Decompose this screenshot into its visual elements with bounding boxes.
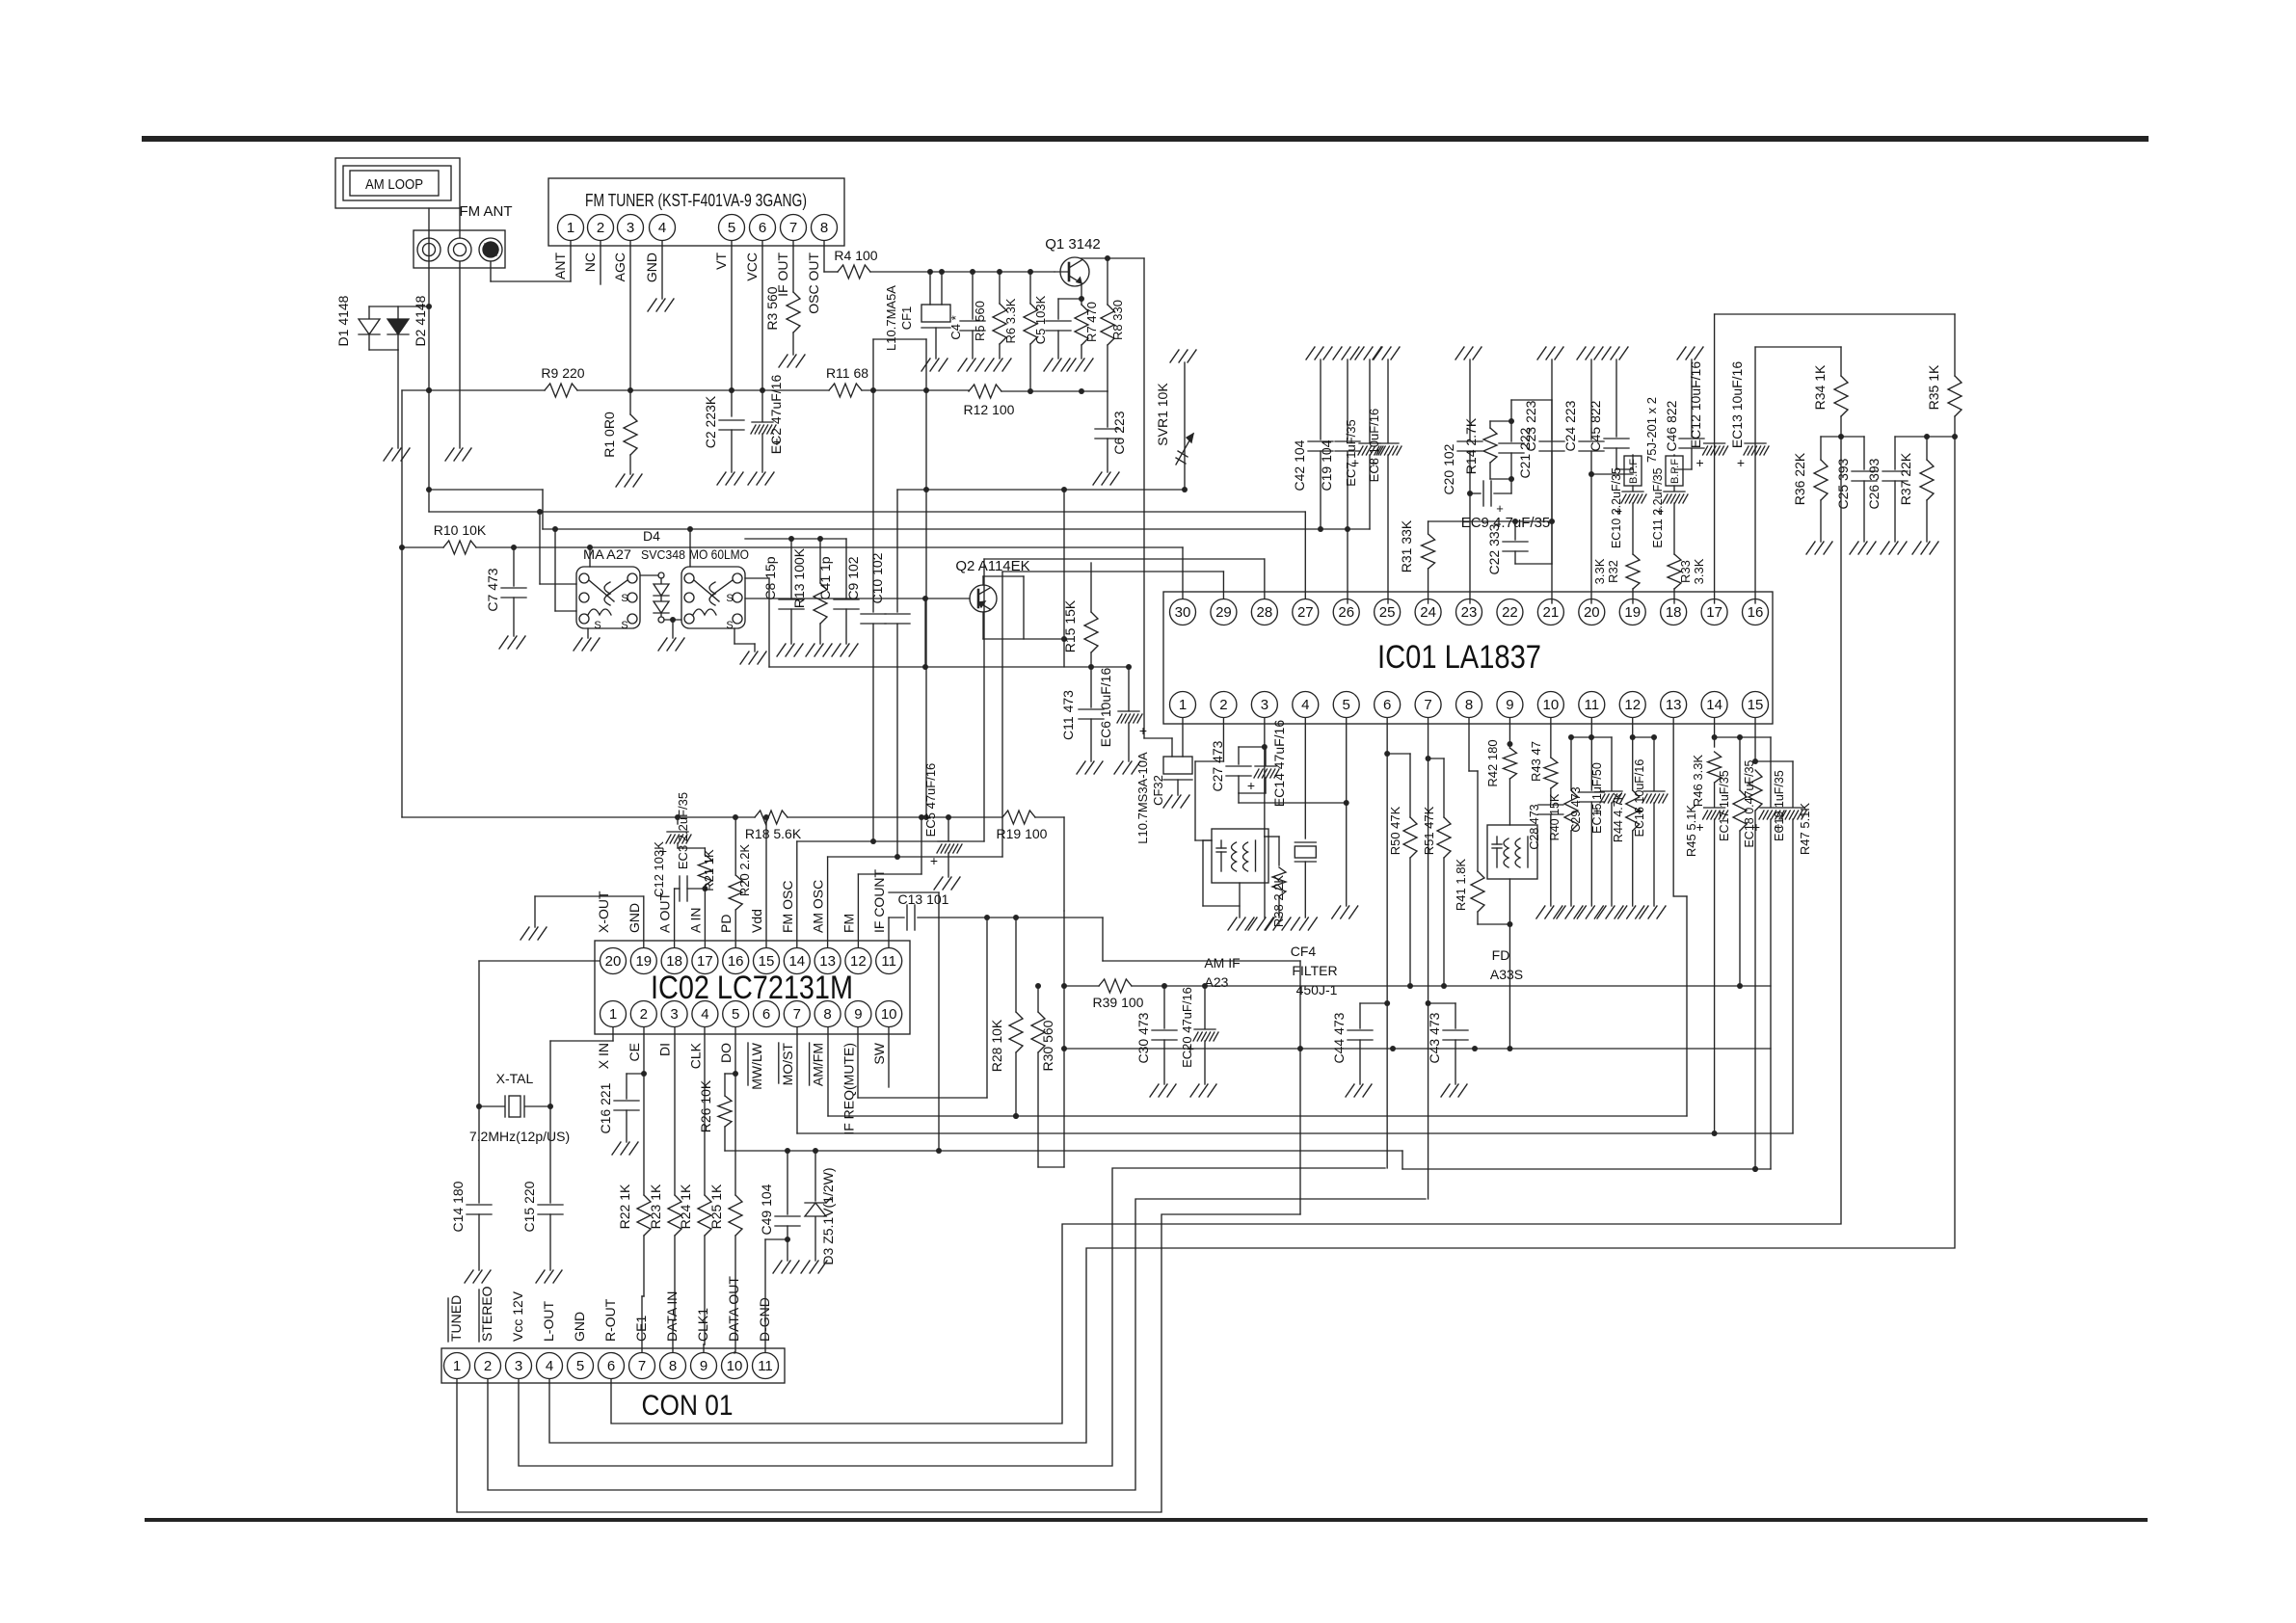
svg-text:C27 473: C27 473	[1210, 740, 1225, 791]
wire rail R26	[725, 1148, 1771, 1172]
wire	[1203, 840, 1240, 918]
pin 1 IC01	[1170, 692, 1196, 718]
svg-text:R41 1.8K: R41 1.8K	[1454, 859, 1468, 912]
svg-text:EC20 47uF/16: EC20 47uF/16	[1180, 987, 1194, 1068]
svg-text:4: 4	[658, 220, 666, 236]
capacitor C26 393	[1866, 437, 1908, 542]
capacitor C5 103K	[1033, 295, 1071, 359]
svg-text:2: 2	[640, 1006, 648, 1023]
pin 17 IC01	[1701, 599, 1727, 625]
svg-text:19: 19	[1624, 604, 1641, 621]
pin 18 IC01	[1661, 599, 1687, 625]
wire con10 DATA OUT	[734, 1352, 735, 1353]
svg-text:75J-201 x 2: 75J-201 x 2	[1644, 397, 1659, 463]
wire con1 TUNED	[457, 1214, 1300, 1512]
resistor R26 10K	[698, 1074, 735, 1151]
pin 16 IC01	[1743, 599, 1769, 625]
capacitor C21 222	[1499, 421, 1533, 479]
wire	[1895, 434, 1958, 439]
svg-text:6: 6	[1383, 697, 1391, 713]
svg-text:2: 2	[597, 220, 604, 236]
wire	[1265, 837, 1268, 918]
pin label VT	[713, 253, 729, 270]
ground	[612, 1142, 638, 1155]
pin 2 CON01	[475, 1353, 501, 1379]
capacitor C6 223	[1095, 391, 1127, 472]
pin label CLK1	[695, 1308, 710, 1342]
svg-text:C49 104: C49 104	[759, 1184, 774, 1235]
wire pin19 GND	[535, 896, 644, 947]
svg-text:EC17 1uF/35: EC17 1uF/35	[1718, 770, 1731, 841]
pin 5 CON01	[568, 1353, 594, 1379]
pin 2 IC01	[1211, 692, 1237, 718]
wire con8 DATA IN	[673, 1320, 675, 1352]
wire pin17 A IN	[702, 886, 707, 947]
wire pin14 FM OSC	[797, 841, 873, 947]
capacitor EC9 4.7uF/35	[1461, 479, 1551, 531]
capacitor C10 102	[869, 490, 910, 857]
capacitor EC20 47uF/16	[1180, 986, 1218, 1084]
svg-text:3: 3	[670, 1006, 678, 1023]
wire	[1144, 258, 1172, 757]
pin 6 CON01	[599, 1353, 625, 1379]
pin label GND	[572, 1312, 587, 1342]
pin 5 IC02	[723, 1001, 749, 1027]
resistor R21 1K	[678, 848, 716, 891]
capacitor EC13 10uF/16	[1729, 361, 1769, 470]
pin 5 FM tuner	[719, 215, 745, 241]
capacitor EC11 2.2uF/35	[1651, 467, 1688, 554]
capacitor EC14 47uF/16	[1247, 720, 1287, 807]
svg-text:Q1 3142: Q1 3142	[1045, 236, 1101, 253]
wire	[1132, 983, 1771, 989]
resistor R1 0R0	[601, 412, 637, 474]
svg-text:18: 18	[1666, 604, 1682, 621]
svg-text:R21 1K: R21 1K	[702, 849, 716, 891]
transistor Q1 3142	[1045, 236, 1101, 286]
wire rail R18	[402, 814, 755, 820]
svg-text:14: 14	[788, 953, 805, 970]
svg-text:24: 24	[1420, 604, 1436, 621]
pin label DATA IN	[664, 1291, 680, 1342]
wire	[399, 390, 405, 817]
pin 26 IC01	[1333, 599, 1359, 625]
pin 15 IC01	[1743, 692, 1769, 718]
svg-text:AM OSC: AM OSC	[811, 880, 826, 933]
capacitor C19 104	[1319, 359, 1360, 603]
wire	[1821, 434, 1864, 439]
svg-text:VT: VT	[713, 253, 729, 270]
svg-text:R6 3.3K: R6 3.3K	[1003, 298, 1018, 343]
wire pin8	[1469, 718, 1478, 871]
pin label TUNED	[448, 1295, 464, 1342]
crystal X-TAL 7.2MHz	[469, 1071, 570, 1144]
wire rail 559	[745, 536, 846, 542]
svg-text:C28 473: C28 473	[1528, 804, 1541, 849]
wire	[672, 620, 674, 638]
pin label A IN	[687, 908, 703, 933]
capacitor EC18 0.47uF/35	[1743, 737, 1784, 1169]
ground	[1150, 1084, 1176, 1097]
svg-text:10: 10	[727, 1358, 743, 1374]
capacitor EC12 10uF/16	[1688, 361, 1728, 470]
svg-text:CLK1: CLK1	[695, 1308, 710, 1342]
capacitor EC16 10uF/16	[1633, 737, 1668, 906]
svg-text:L-OUT: L-OUT	[541, 1301, 556, 1342]
pin label IF COUNT	[871, 868, 887, 933]
wire pin2 CE	[641, 1027, 647, 1195]
wire Q2 base	[745, 596, 970, 670]
resistor R30 560	[1031, 983, 1064, 1167]
pin 24 IC01	[1415, 599, 1441, 625]
resistor R20 2.2K	[729, 817, 752, 910]
resistor R15 15K	[1062, 563, 1098, 667]
svg-text:5: 5	[576, 1358, 584, 1374]
svg-text:C43 473: C43 473	[1427, 1012, 1442, 1063]
svg-text:+: +	[930, 853, 938, 868]
svg-text:EC10 2.2uF/35: EC10 2.2uF/35	[1610, 467, 1623, 548]
svg-text:3: 3	[627, 220, 634, 236]
svg-text:1: 1	[567, 220, 574, 236]
ground	[521, 927, 547, 940]
wire pin8 OSC OUT	[824, 241, 838, 272]
capacitor EC8 10uF/16	[1367, 359, 1402, 603]
capacitor C4 *	[948, 272, 985, 359]
zener diode D3 Z5.1V	[805, 1151, 836, 1265]
svg-text:30: 30	[1175, 604, 1191, 621]
svg-text:IC01 LA1837: IC01 LA1837	[1377, 639, 1541, 676]
pin 9 CON01	[691, 1353, 717, 1379]
pin label IF REQ(MUTE)	[841, 1043, 856, 1135]
pin 20 IC01	[1579, 599, 1605, 625]
capacitor EC6 10uF/16	[1098, 667, 1147, 761]
svg-text:C10 102: C10 102	[869, 552, 885, 603]
svg-text:R42 180: R42 180	[1485, 739, 1500, 786]
svg-text:6: 6	[762, 1006, 770, 1023]
ground	[1190, 1084, 1216, 1097]
pin 3 CON01	[506, 1353, 532, 1379]
svg-text:R8 330: R8 330	[1110, 300, 1125, 340]
capacitor C24 223	[1562, 359, 1604, 603]
svg-text:CLK: CLK	[687, 1042, 703, 1069]
svg-text:CF4: CF4	[1291, 944, 1317, 959]
svg-text:GND: GND	[627, 903, 642, 933]
wire Q2 collector	[983, 576, 1024, 639]
wire con11 D-GND	[764, 1239, 766, 1352]
transistor Q2 A114EK	[955, 558, 1029, 612]
svg-text:S: S	[726, 593, 733, 604]
resistor R42 180	[1485, 739, 1516, 825]
pin label Vdd	[749, 909, 764, 933]
pin 14 IC01	[1701, 692, 1727, 718]
resistor R12 100	[964, 385, 1015, 417]
wire	[1589, 734, 1612, 740]
wire	[552, 526, 576, 611]
svg-text:C24 223: C24 223	[1562, 400, 1578, 451]
wire pin3 AGC	[627, 241, 633, 414]
ground	[1170, 350, 1196, 362]
pin label OSC OUT	[806, 253, 821, 314]
wire Q1 base	[1055, 271, 1069, 273]
svg-text:R50 47K: R50 47K	[1388, 806, 1402, 855]
resistor R35 1K	[1926, 314, 1962, 437]
ground	[1291, 918, 1317, 930]
ceramic filter CF32 L10.7MS3A-10A	[1135, 752, 1192, 844]
ground	[1093, 472, 1119, 485]
svg-text:R36 22K: R36 22K	[1792, 452, 1807, 505]
pin 1 FM tuner	[558, 215, 584, 241]
svg-text:20: 20	[1584, 604, 1600, 621]
wire con6 R-OUT	[611, 437, 1841, 1423]
capacitor C46 822	[1664, 359, 1704, 469]
svg-text:L10.7MA5A: L10.7MA5A	[884, 285, 898, 351]
ground	[748, 472, 774, 485]
svg-text:22: 22	[1502, 604, 1518, 621]
resistor R50 47K	[1388, 806, 1417, 989]
pin label GND	[627, 903, 642, 933]
ground	[985, 359, 1011, 371]
pin 15 IC02	[754, 948, 780, 974]
pin 14 IC02	[784, 948, 810, 974]
pin 4 IC02	[692, 1001, 718, 1027]
svg-text:R-OUT: R-OUT	[602, 1298, 618, 1342]
transformer AM IF A23	[1204, 829, 1268, 990]
svg-text:A33S: A33S	[1490, 967, 1523, 982]
resistor R19 100	[997, 811, 1048, 841]
svg-text:R44 4.7K: R44 4.7K	[1612, 791, 1625, 842]
svg-text:18: 18	[666, 953, 682, 970]
svg-text:L10.7MS3A-10A: L10.7MS3A-10A	[1135, 752, 1150, 844]
svg-text:C19 104: C19 104	[1319, 439, 1334, 491]
ground	[921, 359, 948, 371]
pin 3 IC01	[1251, 692, 1277, 718]
svg-text:C15 220: C15 220	[521, 1181, 537, 1232]
capacitor C44 473	[1331, 1003, 1373, 1084]
pin 23 IC01	[1456, 599, 1482, 625]
pin label PD	[718, 915, 734, 933]
ground	[832, 644, 858, 656]
wire X-OUT net	[476, 961, 600, 1203]
svg-text:C9 102: C9 102	[845, 556, 861, 599]
svg-text:D-GND: D-GND	[757, 1297, 772, 1342]
svg-text:9: 9	[700, 1358, 707, 1374]
pin 17 IC02	[692, 948, 718, 974]
wire	[459, 261, 461, 448]
pin 6 IC01	[1375, 692, 1401, 718]
svg-text:CON 01: CON 01	[642, 1390, 734, 1422]
transformer MA A27	[576, 546, 640, 628]
pin 4 CON01	[537, 1353, 563, 1379]
pin label FM OSC	[780, 881, 795, 933]
pin 4 FM tuner	[650, 215, 676, 241]
svg-text:C25 393: C25 393	[1835, 458, 1851, 509]
wire X IN net	[547, 1027, 613, 1203]
capacitor C25 393	[1835, 437, 1877, 542]
wire	[664, 617, 681, 623]
svg-text:CE: CE	[627, 1043, 642, 1061]
pin 10 IC01	[1537, 692, 1563, 718]
ground	[1044, 359, 1070, 371]
svg-text:EC11 2.2uF/35: EC11 2.2uF/35	[1651, 467, 1665, 547]
svg-text:EC3 2.2uF/35: EC3 2.2uF/35	[676, 792, 690, 869]
svg-text:C14 180: C14 180	[450, 1181, 466, 1232]
svg-text:+: +	[1695, 819, 1703, 835]
wire pin10	[1550, 718, 1552, 758]
svg-text:R9 220: R9 220	[541, 365, 584, 381]
pin 29 IC01	[1211, 599, 1237, 625]
svg-text:C23 223: C23 223	[1523, 400, 1538, 451]
svg-text:+: +	[1496, 501, 1504, 516]
svg-text:R28 10K: R28 10K	[989, 1019, 1004, 1072]
wire	[689, 529, 691, 567]
pin 16 IC02	[723, 948, 749, 974]
wire	[537, 509, 576, 584]
pin label AGC	[612, 253, 627, 281]
svg-text:DATA IN: DATA IN	[664, 1291, 680, 1342]
svg-text:R35 1K: R35 1K	[1926, 364, 1941, 410]
capacitor C20 102	[1441, 359, 1482, 603]
pin label DO	[718, 1043, 734, 1063]
svg-text:C41 1p: C41 1p	[817, 556, 833, 599]
svg-text:7.2MHz(12p/US): 7.2MHz(12p/US)	[469, 1129, 570, 1144]
pin 4 IC01	[1293, 692, 1319, 718]
capacitor EC19 1uF/35	[1773, 761, 1806, 1133]
svg-text:7: 7	[638, 1358, 646, 1374]
wire rail 1088	[1061, 1046, 1771, 1051]
svg-text:R47 5.1K: R47 5.1K	[1798, 803, 1812, 856]
wire pin6	[1384, 718, 1410, 1168]
wire con2 STEREO	[488, 1199, 1426, 1490]
svg-text:FILTER: FILTER	[1292, 963, 1337, 978]
wire	[1061, 911, 1067, 1049]
wire	[1428, 519, 1555, 524]
pin 12 IC01	[1619, 692, 1645, 718]
resistor R25 1K	[708, 1184, 742, 1352]
svg-text:SVR1 10K: SVR1 10K	[1155, 383, 1170, 446]
resistor R51 47K	[1422, 806, 1451, 989]
wire pin11	[1568, 718, 1591, 790]
pin 28 IC01	[1251, 599, 1277, 625]
svg-text:EC18 0.47uF/35: EC18 0.47uF/35	[1743, 759, 1756, 847]
ground	[465, 1270, 491, 1283]
svg-text:R7 470: R7 470	[1084, 302, 1099, 342]
pin 7 FM tuner	[781, 215, 807, 241]
svg-text:X IN: X IN	[596, 1043, 611, 1069]
wire	[765, 1237, 790, 1261]
svg-text:27: 27	[1297, 604, 1314, 621]
wire pin5 DO	[733, 1027, 738, 1195]
resistor R24 1K	[678, 1027, 711, 1344]
svg-text:AGC: AGC	[612, 253, 627, 281]
pin label L-OUT	[541, 1301, 556, 1342]
IC IC01 LA1837 body	[1163, 592, 1773, 724]
svg-text:R40 15K: R40 15K	[1548, 793, 1562, 840]
svg-text:R34 1K: R34 1K	[1812, 364, 1828, 410]
svg-text:4: 4	[701, 1006, 708, 1023]
capacitor C42 104	[1292, 359, 1333, 529]
svg-text:TUNED: TUNED	[448, 1295, 464, 1342]
ground	[958, 359, 984, 371]
svg-text:EC6 10uF/16: EC6 10uF/16	[1098, 668, 1113, 748]
ceramic filter CF4 450J-1	[1291, 718, 1338, 998]
resistor R44 4.7K	[1612, 718, 1640, 906]
resistor R39 100	[1093, 979, 1144, 1010]
svg-text:450J-1: 450J-1	[1296, 982, 1338, 998]
svg-text:D3 Z5.1V(1/2W): D3 Z5.1V(1/2W)	[820, 1167, 836, 1264]
diode D4 SVC348	[641, 528, 685, 623]
resistor R10 10K	[434, 522, 487, 554]
svg-text:8: 8	[820, 220, 828, 236]
wire pin3	[1262, 718, 1268, 837]
svg-text:GND: GND	[644, 253, 659, 282]
capacitor C15 220	[521, 1181, 563, 1270]
svg-text:2: 2	[484, 1358, 492, 1374]
wire rail	[1001, 388, 1108, 394]
pin 7 IC01	[1415, 692, 1441, 718]
overline TUNED	[447, 1298, 449, 1342]
resistor R46 3.3K	[1691, 718, 1722, 807]
pin 7 CON01	[629, 1353, 655, 1379]
pin label A OUT	[657, 892, 673, 933]
ground	[1536, 906, 1562, 918]
wire	[870, 559, 984, 844]
ground	[1163, 795, 1189, 808]
ground	[1912, 542, 1938, 554]
pin label D-GND	[757, 1297, 772, 1342]
wire	[1712, 734, 1771, 740]
ground	[499, 636, 525, 649]
wire pin1	[1182, 718, 1184, 757]
capacitor C13 101	[889, 891, 1300, 961]
pin 8 IC01	[1456, 692, 1482, 718]
svg-text:MO/ST: MO/ST	[780, 1043, 795, 1086]
bandpass filter B.P.F	[1666, 456, 1683, 486]
svg-text:6: 6	[607, 1358, 615, 1374]
pin 13 IC02	[814, 948, 841, 974]
svg-text:R46 3.3K: R46 3.3K	[1691, 755, 1705, 808]
bandpass filter B.P.F	[1624, 397, 1659, 486]
wire pin17 up	[1715, 314, 1955, 603]
svg-text:FM ANT: FM ANT	[460, 203, 513, 220]
wire	[491, 241, 571, 281]
resistor R9 220	[541, 365, 584, 397]
svg-text:R13 100K: R13 100K	[791, 547, 807, 608]
svg-text:9: 9	[854, 1006, 862, 1023]
ground	[1346, 1084, 1372, 1097]
ground	[1537, 347, 1563, 359]
wire pin27	[1304, 512, 1306, 599]
pin 6 FM tuner	[750, 215, 776, 241]
svg-text:11: 11	[1585, 697, 1600, 713]
svg-text:R5 560: R5 560	[973, 301, 987, 341]
wire	[745, 578, 769, 667]
capacitor EC10 2.2uF/35	[1610, 467, 1646, 554]
wire pin6 VCC	[760, 241, 765, 421]
capacitor C16 221	[598, 1074, 644, 1142]
ceramic filter CF1 L10.7MA5A	[884, 272, 950, 359]
ground	[1618, 906, 1644, 918]
capacitor EC15 1uF/50	[1590, 737, 1625, 906]
svg-text:EC9 4.7uF/35: EC9 4.7uF/35	[1461, 515, 1551, 531]
wire con3 Vcc	[519, 1168, 1385, 1466]
ground	[934, 877, 960, 890]
wire Q1 collector	[1081, 255, 1144, 261]
svg-text:R1 0R0: R1 0R0	[601, 412, 617, 458]
svg-text:R18 5.6K: R18 5.6K	[745, 826, 802, 841]
pin 27 IC01	[1293, 599, 1319, 625]
wire pin5	[1344, 718, 1349, 906]
wire	[1478, 879, 1512, 1049]
